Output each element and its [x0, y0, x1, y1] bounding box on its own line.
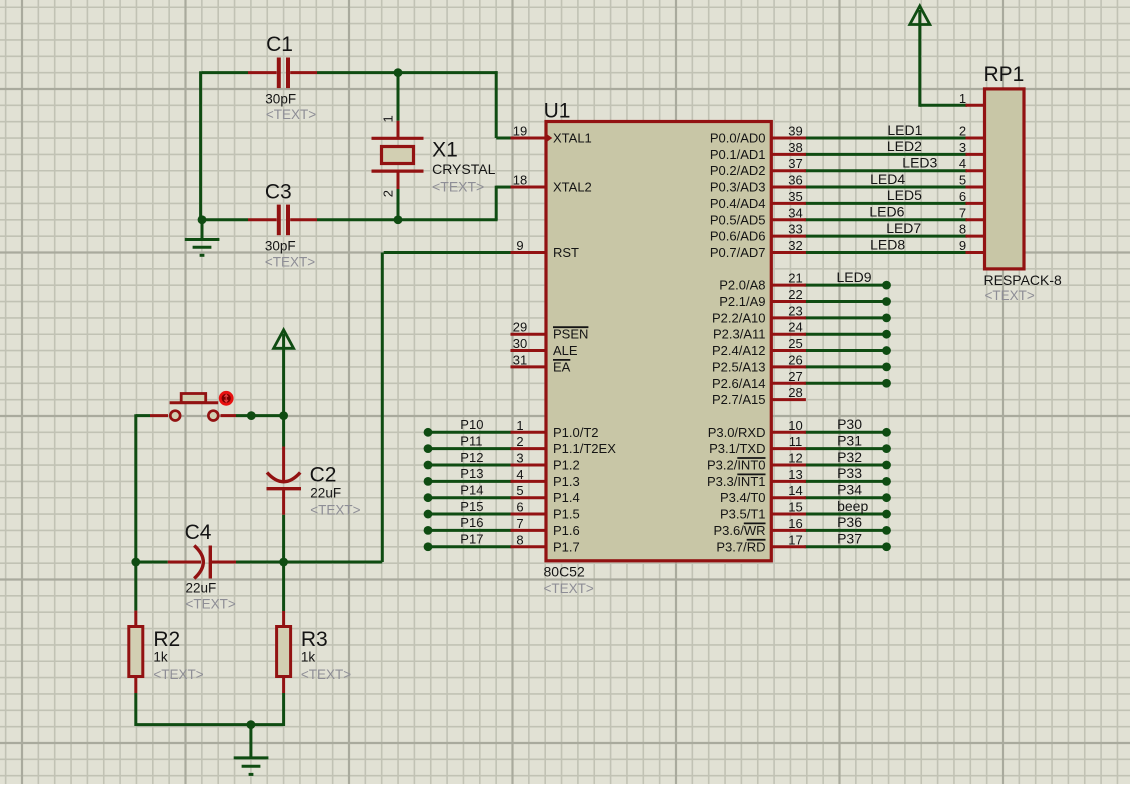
svg-text:P1.1/T2EX: P1.1/T2EX [553, 441, 616, 456]
svg-text:XTAL1: XTAL1 [553, 131, 592, 146]
svg-text:XTAL2: XTAL2 [553, 180, 592, 195]
svg-text:9: 9 [959, 238, 966, 253]
svg-text:LED5: LED5 [887, 187, 922, 203]
svg-text:P11: P11 [460, 433, 482, 448]
svg-text:1k: 1k [153, 650, 168, 665]
svg-text:RP1: RP1 [984, 63, 1025, 86]
svg-text:<TEXT>: <TEXT> [544, 581, 594, 596]
svg-text:P3.0/RXD: P3.0/RXD [708, 425, 766, 440]
svg-text:P0.7/AD7: P0.7/AD7 [710, 245, 766, 260]
svg-text:EA: EA [553, 359, 571, 374]
svg-text:P16: P16 [460, 515, 483, 530]
svg-text:12: 12 [788, 451, 802, 466]
svg-text:P2.6/A14: P2.6/A14 [712, 376, 766, 391]
svg-text:P1.7: P1.7 [553, 539, 580, 554]
svg-text:RST: RST [553, 245, 579, 260]
svg-text:25: 25 [788, 336, 802, 351]
svg-text:LED7: LED7 [886, 220, 921, 236]
svg-text:4: 4 [516, 467, 523, 482]
svg-text:8: 8 [959, 222, 966, 237]
svg-text:23: 23 [788, 303, 802, 318]
svg-text:<TEXT>: <TEXT> [985, 288, 1035, 303]
svg-text:LED4: LED4 [870, 171, 905, 187]
svg-text:P17: P17 [460, 532, 483, 547]
svg-text:LED2: LED2 [887, 138, 922, 154]
svg-text:P33: P33 [837, 465, 862, 481]
svg-text:<TEXT>: <TEXT> [153, 667, 203, 682]
svg-text:X1: X1 [432, 139, 458, 162]
svg-text:P0.6/AD6: P0.6/AD6 [710, 229, 766, 244]
svg-text:<TEXT>: <TEXT> [301, 667, 351, 682]
svg-text:11: 11 [789, 434, 803, 449]
svg-text:10: 10 [788, 418, 802, 433]
svg-text:P3.5/T1: P3.5/T1 [720, 507, 766, 522]
svg-text:27: 27 [788, 369, 802, 384]
svg-text:P1.4: P1.4 [553, 490, 580, 505]
svg-text:24: 24 [788, 320, 802, 335]
svg-text:2: 2 [516, 434, 523, 449]
svg-text:P14: P14 [460, 483, 483, 498]
svg-text:30: 30 [513, 336, 527, 351]
svg-text:26: 26 [788, 352, 802, 367]
svg-text:28: 28 [788, 385, 802, 400]
svg-text:P2.1/A9: P2.1/A9 [719, 294, 765, 309]
svg-text:LED3: LED3 [902, 155, 937, 171]
svg-text:<TEXT>: <TEXT> [266, 107, 316, 122]
svg-text:P3.1/TXD: P3.1/TXD [709, 441, 765, 456]
svg-text:beep: beep [837, 498, 868, 514]
svg-text:P0.2/AD2: P0.2/AD2 [710, 163, 766, 178]
svg-text:<TEXT>: <TEXT> [186, 597, 236, 612]
svg-text:P0.4/AD4: P0.4/AD4 [710, 196, 766, 211]
svg-text:P3.7/RD: P3.7/RD [716, 539, 765, 554]
svg-text:39: 39 [788, 124, 802, 139]
svg-text:22uF: 22uF [310, 486, 341, 501]
svg-text:37: 37 [788, 156, 802, 171]
svg-text:22uF: 22uF [186, 581, 217, 596]
svg-text:5: 5 [959, 173, 966, 188]
svg-text:RESPACK-8: RESPACK-8 [984, 272, 1063, 288]
svg-text:P15: P15 [460, 499, 483, 514]
svg-text:P1.2: P1.2 [553, 458, 580, 473]
svg-text:1k: 1k [301, 650, 316, 665]
svg-text:P36: P36 [837, 514, 862, 530]
svg-text:P13: P13 [460, 466, 483, 481]
svg-text:30pF: 30pF [265, 92, 296, 107]
svg-text:18: 18 [513, 173, 527, 188]
svg-text:P0.3/AD3: P0.3/AD3 [710, 180, 766, 195]
svg-text:ALE: ALE [553, 343, 578, 358]
svg-text:C4: C4 [185, 521, 212, 544]
svg-text:LED1: LED1 [887, 122, 922, 138]
svg-text:5: 5 [516, 483, 523, 498]
svg-text:3: 3 [516, 451, 523, 466]
svg-text:32: 32 [788, 238, 802, 253]
svg-text:P3.3/INT1: P3.3/INT1 [707, 474, 766, 489]
svg-text:2: 2 [381, 190, 396, 197]
svg-text:P1.5: P1.5 [553, 507, 580, 522]
svg-text:6: 6 [959, 189, 966, 204]
svg-text:C1: C1 [266, 33, 293, 56]
svg-text:P2.2/A10: P2.2/A10 [712, 310, 766, 325]
svg-text:P10: P10 [460, 417, 483, 432]
svg-text:19: 19 [513, 124, 527, 139]
svg-text:1: 1 [381, 115, 396, 122]
svg-text:P37: P37 [837, 531, 862, 547]
svg-text:P31: P31 [837, 432, 862, 448]
svg-text:P2.3/A11: P2.3/A11 [713, 327, 766, 342]
svg-text:13: 13 [788, 467, 802, 482]
svg-text:4: 4 [959, 156, 966, 171]
svg-text:P0.5/AD5: P0.5/AD5 [710, 212, 766, 227]
svg-text:P12: P12 [460, 450, 483, 465]
svg-text:P32: P32 [837, 449, 862, 465]
svg-text:6: 6 [516, 500, 523, 515]
svg-text:C2: C2 [310, 464, 337, 487]
svg-text:P2.4/A12: P2.4/A12 [712, 343, 766, 358]
svg-text:LED8: LED8 [870, 236, 905, 252]
svg-text:34: 34 [788, 205, 802, 220]
svg-text:<TEXT>: <TEXT> [310, 502, 360, 517]
svg-text:22: 22 [788, 287, 802, 302]
svg-text:16: 16 [788, 516, 802, 531]
svg-text:1: 1 [959, 91, 966, 106]
svg-text:P2.5/A13: P2.5/A13 [712, 359, 766, 374]
svg-text:R2: R2 [153, 628, 180, 651]
svg-text:LED6: LED6 [869, 204, 904, 220]
svg-text:35: 35 [788, 189, 802, 204]
svg-text:15: 15 [788, 500, 802, 515]
svg-text:8: 8 [516, 532, 523, 547]
svg-text:38: 38 [788, 140, 802, 155]
svg-text:7: 7 [516, 516, 523, 531]
svg-text:<TEXT>: <TEXT> [265, 254, 315, 269]
svg-text:P0.0/AD0: P0.0/AD0 [710, 131, 766, 146]
svg-text:7: 7 [959, 205, 966, 220]
svg-text:P2.0/A8: P2.0/A8 [719, 278, 765, 293]
svg-text:U1: U1 [544, 99, 571, 122]
svg-text:P30: P30 [837, 416, 862, 432]
svg-text:1: 1 [516, 418, 523, 433]
svg-text:36: 36 [788, 173, 802, 188]
svg-text:C3: C3 [265, 180, 292, 203]
svg-text:3: 3 [959, 140, 966, 155]
svg-text:30pF: 30pF [265, 239, 296, 254]
svg-text:P0.1/AD1: P0.1/AD1 [710, 147, 766, 162]
svg-text:14: 14 [788, 483, 802, 498]
svg-text:CRYSTAL: CRYSTAL [432, 161, 495, 177]
svg-text:9: 9 [516, 238, 523, 253]
svg-text:P1.3: P1.3 [553, 474, 580, 489]
svg-text:21: 21 [788, 271, 802, 286]
svg-text:P3.4/T0: P3.4/T0 [720, 490, 766, 505]
svg-text:P34: P34 [837, 482, 862, 498]
svg-text:R3: R3 [301, 628, 328, 651]
svg-text:29: 29 [513, 320, 527, 335]
svg-text:33: 33 [788, 222, 802, 237]
svg-text:LED9: LED9 [837, 269, 872, 285]
svg-text:P2.7/A15: P2.7/A15 [712, 392, 766, 407]
svg-text:P1.6: P1.6 [553, 523, 580, 538]
svg-text:P3.2/INT0: P3.2/INT0 [707, 458, 766, 473]
svg-text:31: 31 [513, 352, 527, 367]
svg-text:PSEN: PSEN [553, 327, 588, 342]
svg-text:2: 2 [959, 124, 966, 139]
svg-text:80C52: 80C52 [544, 563, 585, 579]
svg-text:<TEXT>: <TEXT> [432, 179, 484, 195]
svg-text:P1.0/T2: P1.0/T2 [553, 425, 599, 440]
svg-text:P3.6/WR: P3.6/WR [713, 523, 765, 538]
svg-text:17: 17 [788, 532, 802, 547]
